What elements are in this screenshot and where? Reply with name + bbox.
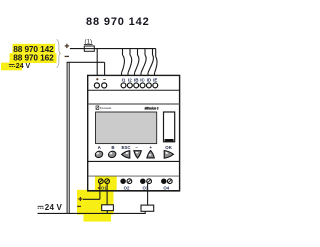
svg-text:OK: OK — [165, 145, 172, 150]
svg-text:24 V: 24 V — [45, 203, 63, 212]
svg-text:O2: O2 — [124, 186, 130, 191]
svg-text:Millenium 3: Millenium 3 — [145, 107, 159, 111]
svg-text:I1: I1 — [122, 77, 126, 82]
svg-text:+: + — [150, 145, 153, 150]
svg-text:IB: IB — [134, 77, 139, 82]
svg-text:O1: O1 — [101, 186, 107, 191]
svg-text:B: B — [111, 145, 114, 150]
svg-text:–: – — [135, 145, 138, 150]
svg-text:88 970 162: 88 970 162 — [13, 52, 54, 62]
svg-text:ID: ID — [147, 77, 152, 82]
svg-text:Crouzet: Crouzet — [100, 106, 112, 110]
svg-text:I2: I2 — [128, 77, 132, 82]
svg-text:O4: O4 — [163, 186, 169, 191]
svg-text:IC: IC — [140, 77, 145, 82]
svg-text:A: A — [98, 145, 102, 150]
svg-text:24 V: 24 V — [16, 63, 31, 70]
svg-text:ESC: ESC — [121, 145, 131, 150]
svg-text:88 970 142: 88 970 142 — [86, 16, 150, 28]
svg-text:IE: IE — [153, 77, 157, 82]
